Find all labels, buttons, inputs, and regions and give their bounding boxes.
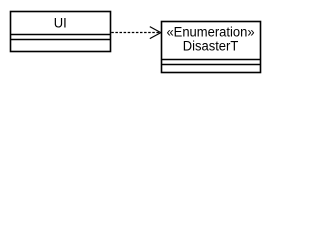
UI attribute compartment separator (11, 34, 111, 36)
UI operation compartment separator (11, 39, 111, 41)
enumeration DisasterT box (162, 22, 261, 73)
class UI box (11, 12, 111, 52)
enum attribute compartment separator (162, 59, 261, 61)
open arrowhead (150, 27, 161, 39)
enum operation compartment separator (162, 64, 261, 66)
svg-text:DisasterT: DisasterT (183, 38, 239, 53)
dashed dependency wire (111, 32, 160, 34)
svg-text:UI: UI (54, 15, 67, 30)
